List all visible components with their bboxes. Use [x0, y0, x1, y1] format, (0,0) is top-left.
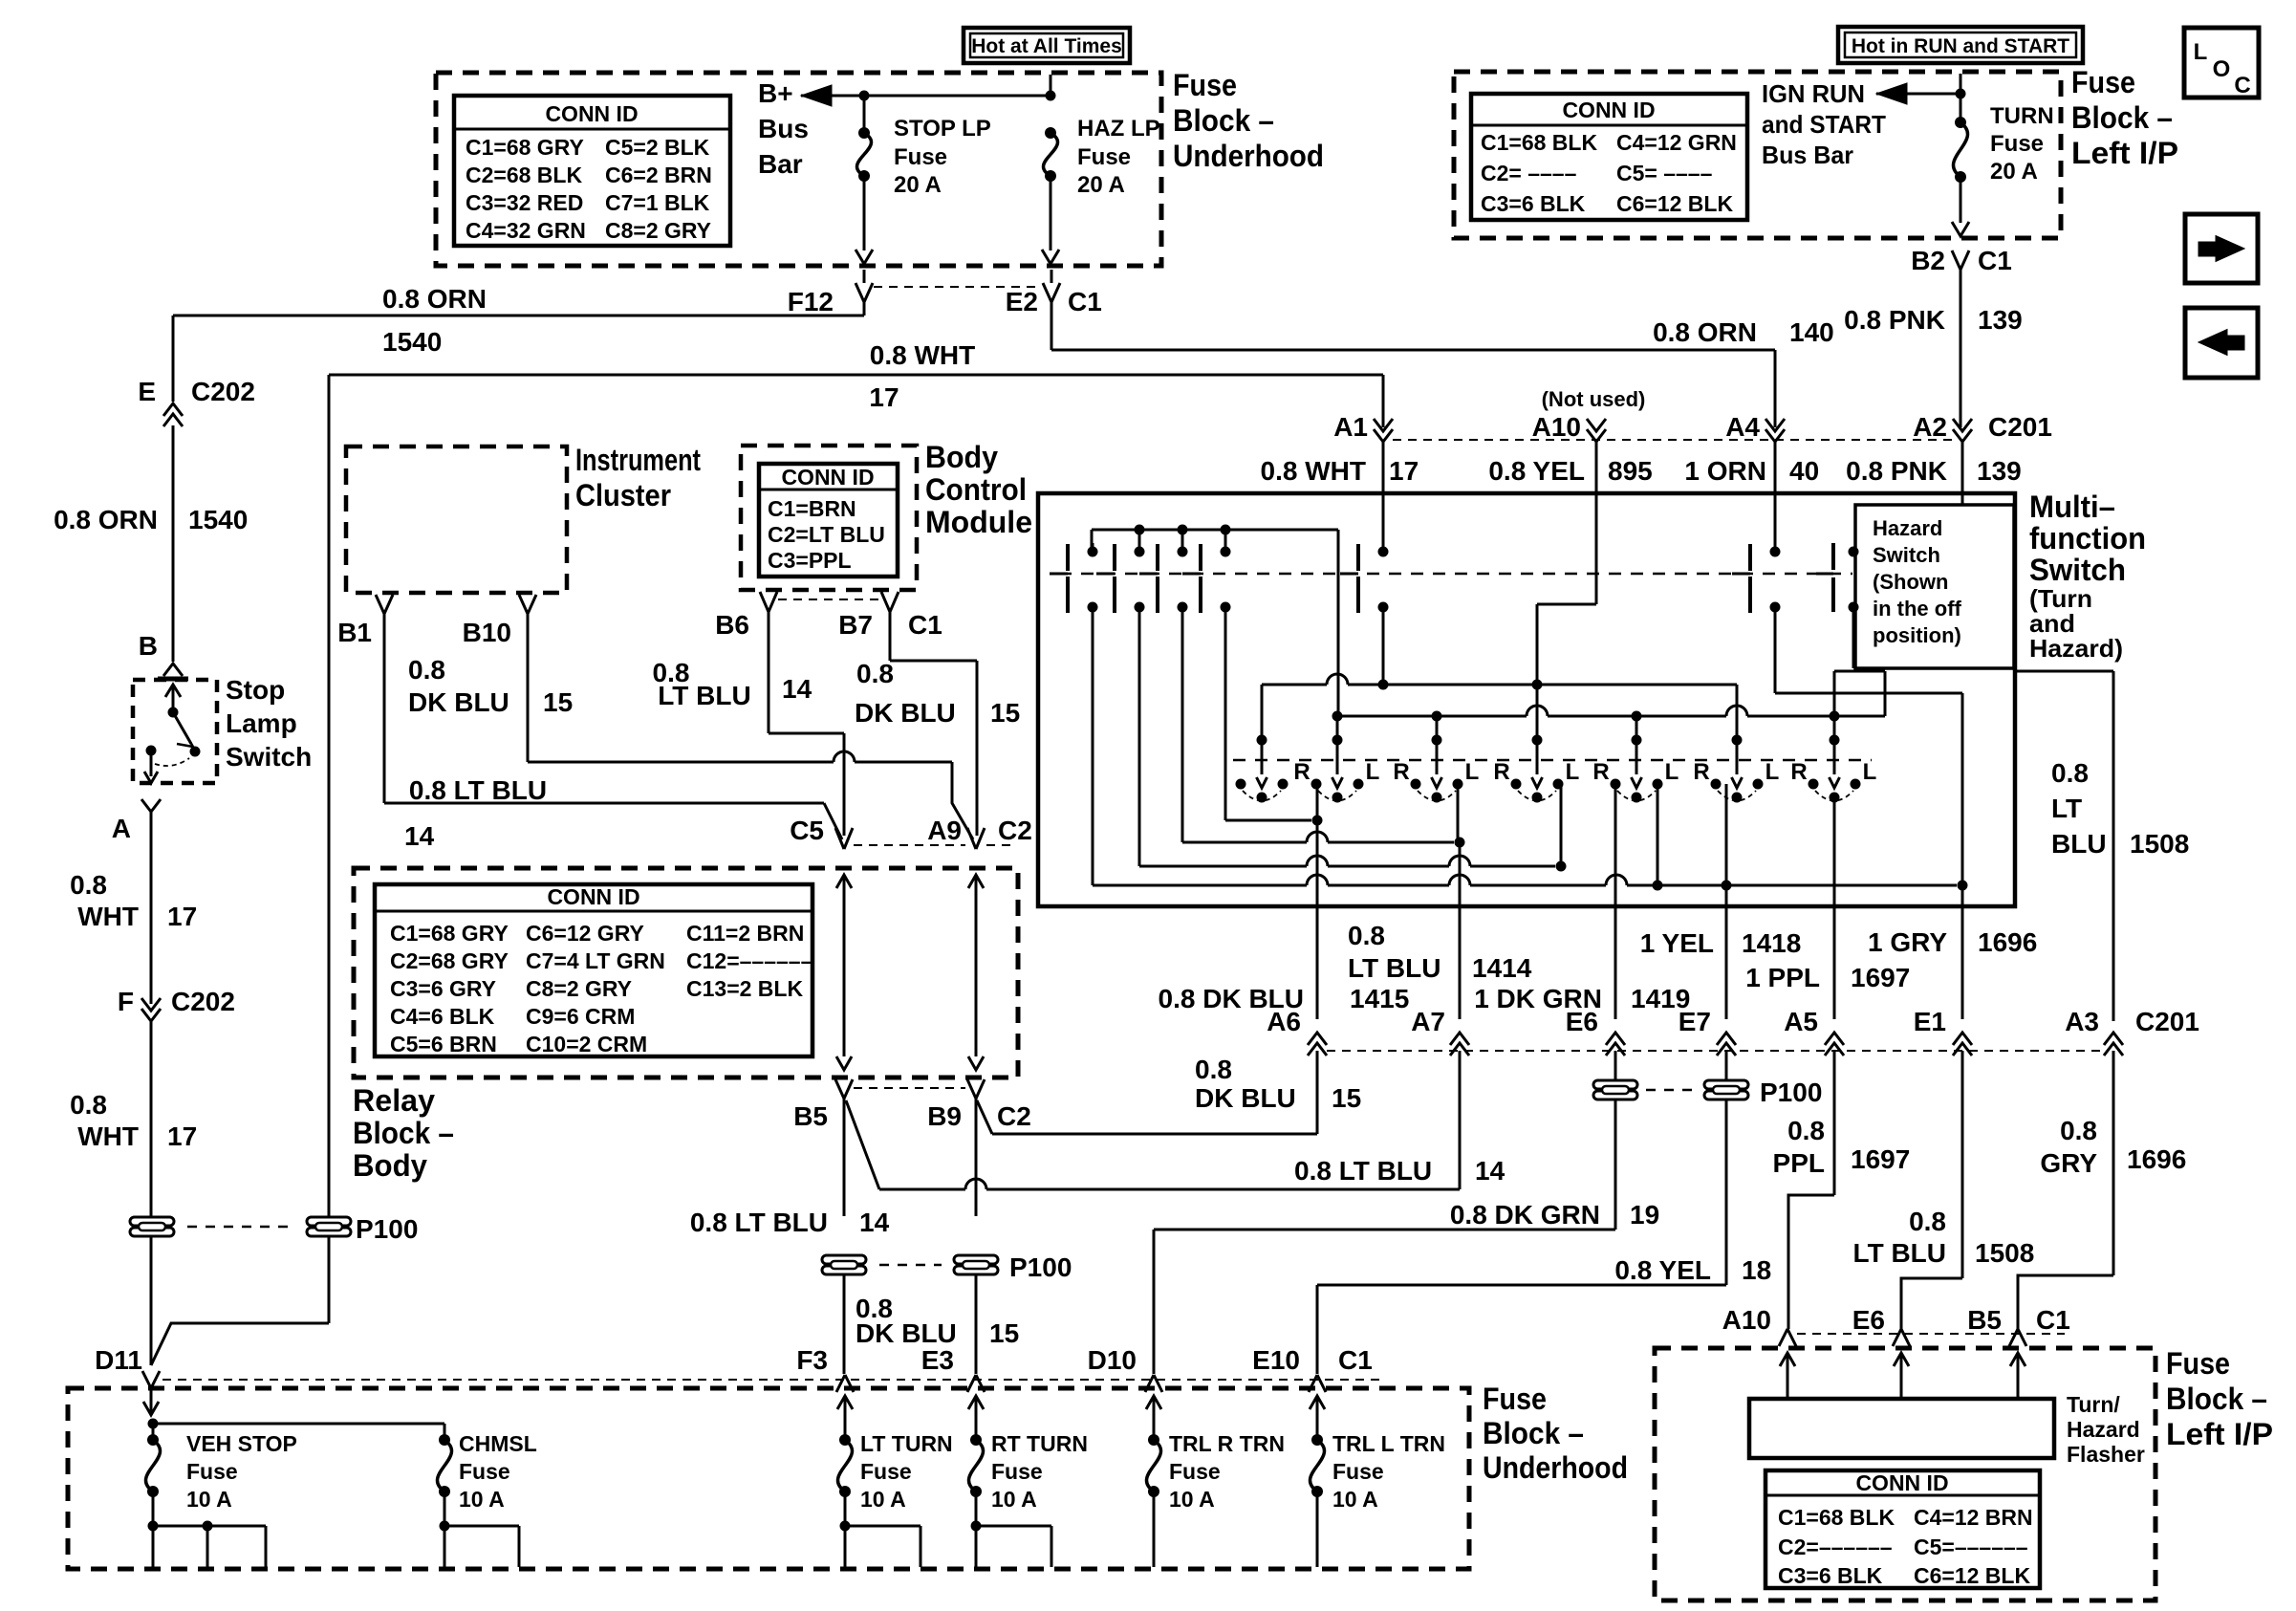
svg-text:1 PPL: 1 PPL [1745, 963, 1820, 992]
svg-text:Bus Bar: Bus Bar [1762, 141, 1853, 169]
svg-text:B5: B5 [1967, 1305, 2002, 1335]
svg-text:40: 40 [1789, 456, 1819, 486]
svg-text:C4=12 BRN: C4=12 BRN [1914, 1505, 2033, 1530]
relay block body dashed box [354, 868, 1018, 1078]
wire: E1 box to pin [1961, 906, 1964, 1019]
svg-text:Block –: Block – [1173, 103, 1274, 138]
svg-text:D10: D10 [1088, 1345, 1137, 1375]
svg-text:20 A: 20 A [1990, 159, 2038, 185]
svg-text:C2= ––––: C2= –––– [1481, 161, 1577, 185]
svg-text:C1: C1 [1338, 1345, 1373, 1375]
svg-text:10 A: 10 A [1332, 1487, 1378, 1512]
svg-text:0.8 LT BLU: 0.8 LT BLU [409, 775, 547, 805]
svg-text:CONN ID: CONN ID [1855, 1470, 1948, 1495]
svg-text:Hot in RUN and START: Hot in RUN and START [1852, 35, 2069, 57]
svg-text:PPL: PPL [1773, 1148, 1825, 1178]
wire: bus A to wiper4 riser [1536, 685, 1539, 738]
svg-text:C7=4 LT GRN: C7=4 LT GRN [526, 948, 665, 973]
svg-text:0.8 PNK: 0.8 PNK [1846, 456, 1947, 486]
svg-text:C5=2 BLK: C5=2 BLK [605, 135, 710, 160]
svg-text:19: 19 [1630, 1200, 1659, 1230]
svg-text:function: function [2029, 521, 2146, 555]
wire: WHT left to D11 [150, 1237, 153, 1365]
wire: bus B to wiper3 riser [1436, 716, 1439, 740]
svg-text:0.8 YEL: 0.8 YEL [1488, 456, 1585, 486]
veh stop fuse output fork [152, 1491, 155, 1526]
switch wiper 3 [1432, 735, 1442, 746]
switch wiper 6 [1732, 735, 1743, 746]
label: Hot in RUN and START [1838, 27, 2083, 63]
svg-text:BLU: BLU [2051, 829, 2107, 859]
svg-text:(Shown: (Shown [1873, 570, 1948, 594]
wire: 0.8 ORN 1540 horizontal [863, 270, 866, 283]
svg-text:Fuse: Fuse [1990, 131, 2044, 157]
svg-text:Fuse: Fuse [1332, 1459, 1384, 1484]
svg-text:1540: 1540 [382, 327, 442, 357]
fuse block underhood (top) dashed outline [436, 73, 1161, 266]
wire: A7 through box bottom [1459, 842, 1462, 906]
svg-text:Underhood: Underhood [1483, 1450, 1628, 1485]
svg-text:Turn/: Turn/ [2067, 1392, 2120, 1417]
wire: 0.8 PNK to hazard switch [1961, 442, 1964, 505]
svg-text:C10=2 CRM: C10=2 CRM [526, 1032, 647, 1056]
svg-text:14: 14 [859, 1208, 890, 1237]
svg-text:E: E [138, 377, 156, 406]
svg-text:R: R [1693, 759, 1709, 785]
svg-text:C2: C2 [997, 1101, 1031, 1131]
svg-text:C6=2 BRN: C6=2 BRN [605, 163, 712, 187]
svg-text:1540: 1540 [188, 505, 248, 534]
switch wiper 1 [1257, 735, 1267, 746]
fuse: HAZ LP 20A [1045, 127, 1056, 139]
svg-text:1415: 1415 [1350, 984, 1409, 1013]
svg-text:1 ORN: 1 ORN [1684, 456, 1766, 486]
wire: 0.8 LT BLU 14 from A7 to B5 [1459, 1051, 1462, 1189]
svg-text:0.8: 0.8 [408, 655, 445, 685]
svg-text:P100: P100 [1009, 1252, 1072, 1282]
wire: wiper2 left contact to A6 [1316, 784, 1319, 820]
wire: relay internal right [968, 875, 984, 888]
svg-text:0.8: 0.8 [1348, 921, 1385, 950]
svg-text:Fuse: Fuse [186, 1459, 238, 1484]
svg-text:C201: C201 [1988, 412, 2052, 442]
svg-text:15: 15 [1332, 1083, 1361, 1113]
svg-text:10 A: 10 A [991, 1487, 1037, 1512]
svg-text:B6: B6 [715, 610, 749, 640]
svg-text:L: L [1366, 759, 1380, 785]
svg-text:20 A: 20 A [1077, 172, 1125, 198]
svg-text:A7: A7 [1411, 1007, 1445, 1036]
grommet P100 on E7 wire [1725, 1051, 1728, 1080]
svg-text:Hazard: Hazard [2067, 1417, 2140, 1442]
multifunction switch box [1038, 493, 2015, 906]
fuse block left I/P (bottom) dashed outline [1655, 1348, 2155, 1600]
svg-text:C5=––––––: C5=–––––– [1914, 1535, 2028, 1559]
svg-text:LT BLU: LT BLU [658, 681, 750, 710]
svg-text:in the off: in the off [1873, 597, 1962, 620]
svg-text:WHT: WHT [77, 1121, 139, 1151]
switch contact A4 hazard feed [1774, 442, 1777, 552]
fuse: VEH STOP 10A [152, 1424, 155, 1440]
wire: 0.8 DK BLU 15 from B7 to C2 [889, 612, 892, 661]
svg-text:LT TURN: LT TURN [860, 1431, 953, 1456]
svg-text:C1=68 BLK: C1=68 BLK [1481, 130, 1597, 155]
wire: B10 to A9 horizontal [528, 761, 834, 764]
wire: bus B to wiper5 riser [1635, 716, 1638, 740]
hazard switch label box [1855, 505, 2014, 668]
svg-text:1696: 1696 [1978, 927, 2037, 957]
svg-text:C7=1 BLK: C7=1 BLK [605, 190, 710, 215]
svg-text:Fuse: Fuse [991, 1459, 1043, 1484]
svg-text:TRL L TRN: TRL L TRN [1332, 1431, 1445, 1456]
svg-text:LT BLU: LT BLU [1853, 1238, 1946, 1268]
wire: 0.8 WHT 17 to P100 [150, 1021, 153, 1216]
connector C201 dashed line top [1393, 439, 1953, 441]
svg-text:Fuse: Fuse [1077, 144, 1131, 170]
wire: 0.8 YEL 18 from E7 to E10 [1725, 1100, 1728, 1285]
svg-text:A9: A9 [927, 816, 962, 845]
svg-text:C2=68 GRY: C2=68 GRY [390, 948, 509, 973]
wire: haz lp feed from top [1050, 75, 1052, 96]
svg-text:15: 15 [990, 698, 1020, 728]
svg-text:C3=32 RED: C3=32 RED [466, 190, 583, 215]
svg-text:0.8 WHT: 0.8 WHT [870, 340, 975, 370]
svg-text:WHT: WHT [77, 902, 139, 931]
svg-text:RT TURN: RT TURN [991, 1431, 1088, 1456]
svg-text:E6: E6 [1852, 1305, 1885, 1335]
svg-text:1418: 1418 [1742, 928, 1801, 958]
wire: 0.8 DK GRN 19 from E6 to D10 [1614, 1100, 1617, 1230]
switch contact column 2 [1135, 525, 1145, 535]
node: junction stop lp fuse [859, 91, 870, 101]
svg-text:C4=12 GRN: C4=12 GRN [1616, 130, 1737, 155]
svg-text:R: R [1493, 759, 1509, 785]
wire: A4 to E1 riser [1774, 607, 1777, 693]
wire: 0.8 LT BLU 14 B5 to F3 [843, 1099, 846, 1216]
svg-text:E10: E10 [1252, 1345, 1300, 1375]
svg-text:R: R [1790, 759, 1807, 785]
svg-text:1 GRY: 1 GRY [1868, 927, 1947, 957]
fuse: CHMSL 10A [439, 1434, 450, 1446]
svg-text:and START: and START [1762, 110, 1886, 139]
svg-text:A10: A10 [1532, 412, 1581, 442]
wire: return line L2 col3 to A7 [1182, 841, 1307, 844]
svg-text:C5: C5 [790, 816, 824, 845]
grommet P100 on B9 wire [954, 1255, 998, 1264]
svg-text:C5= ––––: C5= –––– [1616, 161, 1713, 185]
svg-text:CONN ID: CONN ID [547, 884, 639, 909]
fuse: TRL L TRN 10A [1310, 1396, 1325, 1409]
svg-text:LT BLU: LT BLU [1348, 953, 1440, 983]
switch contact column 1 [1088, 547, 1098, 557]
wire: 0.8 DK BLU 15 from B10 [527, 614, 530, 762]
wire: E7 box to pin [1725, 906, 1728, 1019]
svg-text:1696: 1696 [2127, 1144, 2186, 1174]
svg-text:C6=12 GRY: C6=12 GRY [526, 921, 644, 946]
wire: A6 through box bottom [1316, 820, 1319, 906]
svg-text:0.8: 0.8 [1909, 1207, 1946, 1236]
svg-text:C4=6 BLK: C4=6 BLK [390, 1004, 495, 1029]
mechanical linkage dashed line [1059, 573, 1852, 576]
svg-text:Block –: Block – [2166, 1382, 2267, 1416]
svg-text:C2=LT BLU: C2=LT BLU [768, 522, 885, 547]
svg-text:Module: Module [925, 505, 1032, 539]
svg-text:CONN ID: CONN ID [781, 465, 874, 490]
grommet P100 on E6 wire [1614, 1051, 1617, 1080]
svg-text:Bus: Bus [758, 114, 809, 143]
svg-text:0.8 ORN: 0.8 ORN [382, 284, 487, 314]
svg-text:HAZ LP: HAZ LP [1077, 116, 1160, 142]
svg-text:B7: B7 [838, 610, 873, 640]
node: junction turn fuse [1956, 89, 1966, 99]
svg-text:B10: B10 [463, 618, 511, 647]
svg-text:L: L [1665, 759, 1679, 785]
svg-text:C9=6 CRM: C9=6 CRM [526, 1004, 635, 1029]
switch contact A1 turn feed [1382, 442, 1385, 552]
wire: relay internal left [836, 875, 852, 888]
svg-text:C1=68 BLK: C1=68 BLK [1778, 1505, 1895, 1530]
svg-text:C3=6 GRY: C3=6 GRY [390, 976, 496, 1001]
wire: 0.8 WHT 17 horizontal to A1 [329, 374, 1383, 377]
svg-text:C2=––––––: C2=–––––– [1778, 1535, 1893, 1559]
wire: 0.8 PNK 139 vertical [1960, 270, 1962, 427]
svg-text:C6=12 BLK: C6=12 BLK [1616, 191, 1733, 216]
svg-text:B1: B1 [337, 618, 372, 647]
wire: 0.8 LT BLU 14 from B6 to C5 [768, 612, 770, 733]
trl r trn fuse output [1153, 1491, 1156, 1567]
svg-text:Cluster: Cluster [575, 478, 671, 512]
wire: flasher pin B5 internal [2010, 1353, 2025, 1366]
svg-text:B5: B5 [793, 1101, 828, 1131]
wire: wiper5 left contact to E6 [1614, 784, 1617, 906]
wire: 0.8 ORN 1540 to stop lamp switch [172, 425, 175, 662]
svg-text:CONN ID: CONN ID [545, 101, 638, 126]
svg-text:Fuse: Fuse [894, 144, 947, 170]
svg-text:C1: C1 [908, 610, 942, 640]
switch bus A 0.8 WHT feed [1261, 685, 1264, 738]
svg-text:Stop: Stop [226, 675, 285, 705]
wire: A10 not used into bus A [1595, 442, 1598, 604]
fuse: RT TURN 10A [968, 1396, 984, 1409]
svg-text:STOP LP: STOP LP [894, 116, 991, 142]
node: junction haz lp fuse [1046, 91, 1056, 101]
svg-text:C2: C2 [998, 816, 1032, 845]
svg-text:TURN: TURN [1990, 103, 2054, 129]
svg-text:Switch: Switch [2029, 553, 2126, 587]
wire: hazard 1508 output over box edge [2014, 670, 2113, 673]
svg-text:(Not used): (Not used) [1542, 387, 1646, 411]
wire: 0.8 LT BLU 14 from B1 [383, 614, 386, 803]
svg-text:0.8 LT BLU: 0.8 LT BLU [1294, 1156, 1432, 1186]
svg-text:Block –: Block – [2071, 100, 2173, 135]
switch contact bus top line [1092, 529, 1338, 532]
svg-text:140: 140 [1789, 317, 1834, 347]
CONN ID table (underhood top) [454, 96, 730, 246]
svg-text:P100: P100 [356, 1214, 418, 1244]
svg-text:Switch: Switch [1873, 543, 1940, 567]
svg-text:Fuse: Fuse [459, 1459, 510, 1484]
svg-text:1697: 1697 [1851, 1144, 1910, 1174]
svg-text:L: L [1465, 759, 1480, 785]
svg-text:L: L [1765, 759, 1780, 785]
svg-text:C3=6 BLK: C3=6 BLK [1481, 191, 1586, 216]
svg-text:1508: 1508 [2130, 829, 2189, 859]
svg-text:10 A: 10 A [860, 1487, 906, 1512]
svg-text:1 YEL: 1 YEL [1640, 928, 1714, 958]
svg-text:C2=68 BLK: C2=68 BLK [466, 163, 582, 187]
svg-text:0.8 PNK: 0.8 PNK [1844, 305, 1945, 335]
svg-text:0.8: 0.8 [1787, 1116, 1825, 1145]
svg-text:0.8: 0.8 [2060, 1116, 2097, 1145]
grommet P100 left [130, 1217, 174, 1226]
svg-text:R: R [1592, 759, 1609, 785]
svg-text:A1: A1 [1333, 412, 1368, 442]
trl l trn fuse output [1316, 1491, 1319, 1567]
CONN ID table (left I/P bottom) [1765, 1470, 2040, 1588]
connector dashed line F12-E2 [874, 286, 1040, 288]
svg-text:0.8: 0.8 [70, 870, 107, 900]
svg-text:R: R [1293, 759, 1310, 785]
svg-text:L: L [2194, 39, 2208, 65]
svg-text:Fuse: Fuse [860, 1459, 912, 1484]
switch contact hazard [1849, 547, 1859, 557]
switch wiper 7 [1830, 735, 1840, 746]
svg-text:Flasher: Flasher [2067, 1442, 2145, 1467]
wire: E6 box to pin [1614, 906, 1617, 1019]
svg-text:14: 14 [782, 674, 812, 704]
svg-text:C202: C202 [191, 377, 255, 406]
chmsl fuse output fork [444, 1491, 446, 1526]
CONN ID table (relay block) [375, 884, 812, 1056]
svg-text:17: 17 [1389, 456, 1419, 486]
wire: veh stop feed bus [148, 1419, 159, 1429]
svg-text:Bar: Bar [758, 149, 803, 179]
svg-text:Hazard: Hazard [1873, 516, 1942, 540]
svg-text:C11=2 BRN: C11=2 BRN [686, 921, 804, 946]
wire: B5 grommet to F3 [843, 1275, 846, 1374]
svg-text:E3: E3 [921, 1345, 954, 1375]
wire: flasher pin A10 internal [1780, 1353, 1795, 1366]
connector pin D11 entry [143, 1402, 159, 1415]
svg-text:Left I/P: Left I/P [2071, 136, 2178, 170]
svg-text:Fuse: Fuse [1169, 1459, 1221, 1484]
connector dashed line D11 row [162, 1379, 1381, 1381]
svg-text:17: 17 [869, 382, 899, 412]
svg-text:139: 139 [1978, 305, 2023, 335]
svg-text:C8=2 GRY: C8=2 GRY [526, 976, 632, 1001]
instrument cluster dashed box [346, 446, 567, 593]
svg-text:C8=2 GRY: C8=2 GRY [605, 218, 711, 243]
svg-text:position): position) [1873, 623, 1961, 647]
connector dashed line B5-B9 [854, 1087, 965, 1089]
svg-text:Instrument: Instrument [575, 443, 701, 477]
svg-text:CONN ID: CONN ID [1562, 98, 1655, 122]
wire: bus B to wiper2 riser [1336, 716, 1339, 740]
svg-text:GRY: GRY [2040, 1148, 2097, 1178]
P100 dashed link and label [187, 1226, 294, 1229]
svg-text:0.8: 0.8 [2051, 758, 2089, 788]
switch bus B flasher feed [1337, 715, 1527, 718]
svg-text:14: 14 [1475, 1156, 1505, 1186]
fuse: LT TURN 10A [837, 1396, 853, 1409]
connector dashed line A10-C1 row [1797, 1333, 2065, 1335]
svg-text:B: B [139, 631, 158, 661]
svg-text:CHMSL: CHMSL [459, 1431, 537, 1456]
body control module dashed box [741, 446, 917, 590]
svg-text:C5=6 BRN: C5=6 BRN [390, 1032, 497, 1056]
svg-text:C1: C1 [1068, 287, 1102, 316]
CONN ID table (left I/P top) [1471, 94, 1747, 220]
svg-text:R: R [1393, 759, 1409, 785]
svg-text:F12: F12 [788, 287, 834, 316]
wire: wiper3 right contact to A7 [1457, 784, 1460, 842]
svg-text:15: 15 [989, 1318, 1019, 1348]
svg-text:Hazard): Hazard) [2029, 634, 2123, 663]
svg-text:Fuse: Fuse [2166, 1346, 2230, 1381]
lt turn fuse output fork [844, 1491, 847, 1526]
svg-text:DK BLU: DK BLU [408, 687, 509, 717]
svg-text:E2: E2 [1006, 287, 1038, 316]
svg-text:Fuse: Fuse [2071, 65, 2135, 99]
grommet P100 right [307, 1217, 351, 1226]
svg-text:17: 17 [167, 1121, 197, 1151]
svg-text:Underhood: Underhood [1173, 139, 1324, 173]
wire: ORN vertical to E C202 [172, 316, 175, 402]
wire: 0.8 WHT 17 second vertical [328, 375, 331, 1216]
wire: 0.8 LT BLU 1508 from E1 to flasher E6 [1961, 1051, 1964, 1278]
svg-text:C13=2 BLK: C13=2 BLK [686, 976, 803, 1001]
svg-text:0.8: 0.8 [856, 659, 894, 688]
svg-text:1697: 1697 [1851, 963, 1910, 992]
switch wiper 4 [1532, 735, 1543, 746]
svg-text:A4: A4 [1725, 412, 1760, 442]
svg-text:C6=12 BLK: C6=12 BLK [1914, 1563, 2030, 1588]
svg-text:IGN RUN: IGN RUN [1762, 79, 1865, 108]
wire: A6 box to pin [1316, 906, 1319, 1019]
svg-text:B+: B+ [758, 78, 793, 108]
svg-text:10 A: 10 A [1169, 1487, 1215, 1512]
wire: turn fuse feed from top [1960, 74, 1962, 94]
IGN bus bar wire with arrow [1876, 83, 1907, 104]
rt turn fuse output fork [975, 1491, 978, 1526]
svg-text:Body: Body [925, 440, 998, 474]
svg-text:A6: A6 [1267, 1007, 1301, 1036]
svg-text:DK BLU: DK BLU [1195, 1083, 1296, 1113]
svg-text:Left I/P: Left I/P [2166, 1417, 2273, 1451]
fuse: TURN 20A [1960, 94, 1962, 122]
fuse block underhood (bottom) dashed outline [68, 1388, 1469, 1569]
wire: wiper7 center to A5 [1833, 796, 1836, 906]
svg-text:L: L [1863, 759, 1877, 785]
svg-text:14: 14 [404, 821, 435, 851]
wire: 0.8 WHT 17 below switch [150, 812, 153, 1004]
wire: 0.8 DK BLU 15 from A6 to B9 [1316, 1051, 1319, 1134]
svg-text:Hot at All Times: Hot at All Times [971, 35, 1122, 57]
grommet P100 on B5 wire [822, 1255, 866, 1264]
svg-text:A: A [112, 814, 131, 843]
svg-text:1414: 1414 [1472, 953, 1532, 983]
svg-text:0.8 WHT: 0.8 WHT [1261, 456, 1366, 486]
svg-text:E1: E1 [1914, 1007, 1946, 1036]
svg-text:0.8 ORN: 0.8 ORN [54, 505, 158, 534]
svg-text:E7: E7 [1679, 1007, 1711, 1036]
svg-text:Multi–: Multi– [2029, 490, 2115, 524]
connector dashed line B6-B7 [778, 599, 879, 600]
switch contact group riser [1337, 530, 1340, 716]
svg-text:D11: D11 [95, 1345, 142, 1375]
svg-text:DK BLU: DK BLU [856, 1318, 957, 1348]
wiper dashed line [1233, 759, 1872, 762]
